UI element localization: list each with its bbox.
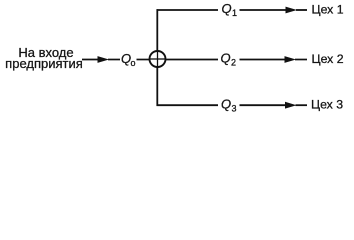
svg-text:o: o xyxy=(131,58,136,68)
wire: Q0 to summing junction xyxy=(137,59,151,61)
svg-text:Q: Q xyxy=(221,96,231,111)
svg-text:Цех 3: Цех 3 xyxy=(311,98,343,112)
wire: junction to Q2 xyxy=(166,59,219,61)
label Q1 xyxy=(222,1,238,18)
wire: Q3 to workshop 3 with arrow xyxy=(240,102,308,109)
svg-text:1: 1 xyxy=(232,8,237,18)
svg-text:3: 3 xyxy=(232,103,237,113)
svg-text:2: 2 xyxy=(231,58,236,68)
node: summing junction circle with plus xyxy=(150,51,166,67)
wire: bottom branch to Q3 xyxy=(157,104,219,106)
svg-text:Цех 1: Цех 1 xyxy=(312,3,344,17)
svg-text:предприятия: предприятия xyxy=(5,56,83,71)
svg-text:Q: Q xyxy=(222,1,232,16)
wire: input arrow into Q0 xyxy=(82,56,120,63)
label Q0 (total flow) xyxy=(121,51,136,68)
label Q2 xyxy=(221,51,237,68)
wire: top branch to Q1 xyxy=(157,9,219,11)
wire: Q2 to workshop 2 with arrow xyxy=(240,56,308,63)
wire: vertical bus (junction up/down to branches) xyxy=(156,9,158,106)
svg-text:Цех 2: Цех 2 xyxy=(312,52,344,66)
label: На входе предприятия (input of enterprise) xyxy=(5,45,83,71)
svg-text:Q: Q xyxy=(221,51,231,66)
label Q3 xyxy=(221,96,237,113)
wire: Q1 to workshop 1 with arrow xyxy=(240,7,308,14)
